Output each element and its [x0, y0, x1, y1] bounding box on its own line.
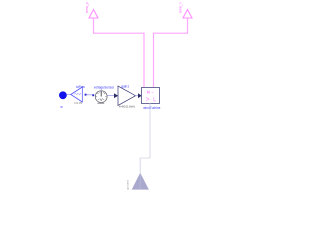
- wire term_n to windTurbine right pin: [154, 18, 188, 88]
- sensor gauge circle: [95, 91, 107, 103]
- ground (filled lavender triangle): [132, 173, 149, 190]
- block windTurbine (square with pink glyphs): [142, 88, 160, 104]
- svg-text:term_n: term_n: [179, 2, 183, 13]
- node port dot after pow3: [85, 94, 87, 96]
- svg-text:gain1: gain1: [121, 85, 129, 89]
- gain input arrow: [114, 93, 118, 98]
- connector term_p (top-left pink triangle): [89, 10, 98, 19]
- wire pow3 to sensor: [87, 94, 93, 96]
- pow3 inner marks: [74, 93, 81, 95]
- ground center seam: [139, 173, 141, 190]
- input connector w (solid blue circle): [59, 91, 67, 99]
- windTurbine input arrow: [138, 93, 142, 98]
- svg-text:windTurbine: windTurbine: [143, 106, 160, 110]
- sensor needle: [100, 91, 102, 97]
- svg-text:toPow: toPow: [76, 85, 86, 89]
- wire gain to windTurbine: [136, 95, 139, 97]
- wire w to pow3 block: [67, 94, 71, 96]
- windTurbine pink glyph row2: [146, 97, 156, 101]
- svg-text:ground: ground: [126, 180, 130, 190]
- block pow3 (left-pointing triangle): [71, 87, 83, 102]
- svg-text:term_p: term_p: [85, 2, 89, 13]
- windTurbine pink glyph row1: [147, 91, 153, 93]
- sensor ticks: [96, 92, 107, 100]
- svg-text:voltageSensor: voltageSensor: [94, 85, 115, 89]
- svg-text:w: w: [60, 105, 63, 109]
- label sensor value: [98, 102, 105, 104]
- sensor inner mark: [100, 98, 103, 100]
- node port dot before sensor: [92, 94, 94, 96]
- wire windTurbine to ground (light gray): [140, 104, 150, 173]
- wire term_p to windTurbine left pin: [94, 18, 145, 88]
- connector term_n (top-right pink triangle): [183, 10, 192, 19]
- svg-text:t=0.05: t=0.05: [74, 101, 82, 105]
- svg-text:k=60/(1.8e6): k=60/(1.8e6): [119, 104, 135, 108]
- gain block triangle: [118, 86, 136, 106]
- wire sensor to gain: [107, 95, 114, 97]
